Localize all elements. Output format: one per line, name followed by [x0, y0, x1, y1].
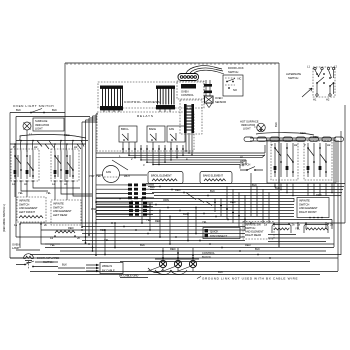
bus band 3: [16, 223, 345, 244]
svg-text:OVEN: OVEN: [12, 243, 20, 247]
relay pin stubs to bus: [122, 142, 184, 153]
svg-text:BLK: BLK: [252, 183, 257, 187]
svg-text:DISCONNECT: DISCONNECT: [210, 234, 228, 238]
trunk hooks to harness: [82, 114, 98, 122]
oven light switch wire BLK: [10, 108, 65, 113]
svg-text:INFINITE: INFINITE: [53, 202, 64, 206]
svg-text:INDICATOR: INDICATOR: [241, 123, 255, 127]
svg-text:INFINITE: INFINITE: [19, 199, 30, 203]
bus vertical jogs: [104, 198, 197, 256]
svg-text:INFINITE SW: INFINITE SW: [245, 223, 261, 227]
svg-text:RIGHT REAR: RIGHT REAR: [245, 233, 261, 237]
svg-text:RED: RED: [175, 188, 181, 192]
svg-text:BLK: BLK: [275, 186, 280, 190]
oven control lower connector: [180, 100, 202, 134]
left fan-out wires to infinite switches: [10, 130, 88, 152]
hi limit switch: [240, 155, 263, 171]
wire to BX box: [35, 262, 85, 268]
svg-text:H2: H2: [326, 98, 330, 102]
console-to-bus drops: [271, 183, 332, 196]
element coil right front: [295, 223, 333, 234]
right console outer box: [267, 140, 336, 183]
disconnect cluster lower: [96, 202, 153, 216]
svg-text:INFINITE: INFINITE: [299, 199, 310, 203]
svg-text:WIRE IN: WIRE IN: [102, 264, 112, 268]
arrows into bx box: [86, 264, 100, 272]
element coil left rear: [50, 231, 80, 241]
connector J1 (left hatched block): [100, 86, 123, 113]
svg-text:YEL: YEL: [18, 191, 23, 195]
hot surface light label: [240, 120, 259, 131]
junction dots: [81, 186, 271, 259]
wires lamp circuit: [10, 224, 60, 258]
main left wire runs: [10, 113, 90, 259]
alternate switch arrow: [302, 88, 312, 97]
svg-text:RED: RED: [230, 200, 236, 204]
svg-text:CONTROL: CONTROL: [181, 93, 194, 97]
svg-text:AND ELEMENT: AND ELEMENT: [19, 206, 38, 210]
oven control connector tails: [186, 133, 192, 155]
connector J2 (right hatched block): [156, 86, 175, 113]
svg-text:HOT SURFACE: HOT SURFACE: [240, 120, 259, 124]
surface indicator light: [23, 118, 64, 131]
terminal row under left switches: [12, 180, 74, 186]
wire in bx cable box: [100, 263, 123, 274]
drops from band2 to right coils: [294, 198, 332, 229]
stair jogs: [112, 160, 212, 206]
svg-text:BROIL ELEMENT: BROIL ELEMENT: [151, 174, 172, 178]
svg-text:BLK: BLK: [140, 243, 145, 247]
svg-text:BLK: BLK: [274, 122, 278, 127]
svg-text:RELAYS: RELAYS: [137, 114, 154, 118]
svg-text:H2: H2: [74, 145, 78, 149]
svg-text:SWITCH: SWITCH: [228, 70, 238, 74]
svg-text:ORN: ORN: [163, 198, 169, 202]
terminal block post L1: [159, 257, 166, 268]
oven sensor wires and inline connectors: [204, 80, 212, 96]
svg-text:SURFACE: SURFACE: [35, 119, 48, 123]
svg-text:BX CABLE: BX CABLE: [102, 269, 115, 273]
note pointer: [197, 277, 201, 279]
svg-text:GROUND LINK NOT USED WITH BX C: GROUND LINK NOT USED WITH BX CABLE WIRE: [202, 277, 298, 281]
switch contact blocks left: [14, 170, 69, 174]
svg-text:H2: H2: [327, 143, 331, 147]
svg-text:SWITCH: SWITCH: [53, 205, 63, 209]
svg-text:P: P: [304, 143, 306, 147]
svg-text:FAN: FAN: [106, 170, 111, 174]
control harness dashed box: [98, 82, 204, 108]
svg-text:BRO-L: BRO-L: [121, 127, 130, 131]
svg-text:ALTERNATE: ALTERNATE: [286, 72, 301, 76]
svg-text:OVEN LIGHT SWITCH: OVEN LIGHT SWITCH: [13, 104, 54, 108]
relays dashed box: [97, 112, 194, 151]
oven control dashed box: [177, 81, 204, 99]
fanout end hooks: [240, 145, 265, 169]
infinite switch left front (dashed box with contacts): [11, 149, 39, 181]
svg-text:LIGHT: LIGHT: [35, 127, 43, 131]
svg-text:YEL: YEL: [146, 218, 151, 222]
svg-text:YEL: YEL: [202, 220, 207, 224]
svg-text:RED: RED: [170, 247, 176, 251]
infinite switch right front (dashed contacts box): [304, 141, 332, 180]
console edge stitching: [67, 63, 275, 65]
svg-text:FAN: FAN: [169, 127, 174, 131]
svg-text:RED: RED: [245, 243, 251, 247]
svg-text:CONTROL HARNESS: CONTROL HARNESS: [124, 100, 160, 104]
svg-text:P: P: [271, 143, 273, 147]
svg-text:BLOCK: BLOCK: [202, 255, 211, 259]
infinite switch left rear (dashed box with contacts): [51, 149, 79, 181]
svg-text:BLK: BLK: [218, 270, 223, 274]
svg-text:P: P: [13, 145, 15, 149]
svg-text:(RED WIRE SWITCH L): (RED WIRE SWITCH L): [2, 204, 6, 232]
disconnect cluster upper: [96, 184, 154, 200]
svg-text:P: P: [53, 145, 55, 149]
bus band 2: [96, 199, 294, 220]
svg-text:RED: RED: [316, 193, 322, 197]
svg-text:AND ELEMENT: AND ELEMENT: [53, 209, 72, 213]
svg-text:BLK: BLK: [150, 185, 155, 189]
svg-text:LEFT REAR: LEFT REAR: [53, 213, 67, 217]
bottom bus lines: [30, 272, 338, 278]
fan wires: [96, 174, 147, 176]
hot surface indicator light: [257, 123, 266, 132]
svg-text:NO: NO: [233, 88, 237, 92]
svg-text:BLK: BLK: [62, 263, 67, 267]
svg-text:YEL: YEL: [295, 227, 300, 231]
RED feeds to right console: [250, 131, 336, 141]
svg-text:SWITCH: SWITCH: [288, 76, 298, 80]
svg-text:SWITCH: SWITCH: [299, 202, 309, 206]
svg-text:H2: H2: [294, 143, 298, 147]
console outer box: [65, 63, 279, 247]
element coil right rear: [264, 223, 295, 234]
svg-text:OVEN: OVEN: [181, 90, 189, 94]
svg-text:H2: H2: [34, 145, 38, 149]
infinite switch and element right front label: [297, 198, 329, 218]
svg-text:YEL: YEL: [50, 243, 55, 247]
oven sensor: [205, 96, 214, 108]
svg-text:CONTROL: CONTROL: [202, 251, 215, 255]
svg-text:AND ELEMENT: AND ELEMENT: [299, 206, 318, 210]
svg-text:SWITCH: SWITCH: [245, 226, 255, 230]
svg-text:YEL: YEL: [145, 205, 150, 209]
bake element: [200, 172, 232, 184]
svg-text:H1: H1: [313, 98, 317, 102]
svg-text:PNP: PNP: [89, 174, 95, 178]
svg-text:BLK: BLK: [52, 108, 57, 112]
svg-text:RIGHT FRONT: RIGHT FRONT: [299, 210, 317, 214]
fan-in curves to left switch groups: [15, 141, 84, 153]
svg-text:AND ELEMENT: AND ELEMENT: [245, 230, 264, 234]
door lock switch box: [223, 75, 243, 96]
misc wire labels: [50, 183, 260, 251]
infinite switch and element left front label box: [17, 197, 46, 222]
alternate switch box: [307, 65, 337, 102]
broil element: [148, 172, 183, 184]
right vertical trunk: [334, 105, 345, 271]
relay pin step-downs: [123, 153, 183, 165]
ground strap curves: [148, 268, 187, 275]
terminal block post N: [174, 257, 181, 268]
svg-text:SWITCH: SWITCH: [19, 202, 29, 206]
left vertical trunk: [82, 114, 96, 255]
terminal block post L2: [189, 257, 196, 268]
wire bundle from oven control to door lock: [186, 66, 224, 74]
svg-text:LEFT FRONT: LEFT FRONT: [19, 210, 35, 214]
relay K3 FAN: [167, 126, 185, 142]
oven control connector block: [181, 84, 196, 89]
door actuated switch: [16, 261, 58, 269]
oven lamp: [24, 254, 34, 263]
svg-text:YEL: YEL: [96, 174, 101, 178]
right front box bottom terminals: [309, 217, 311, 219]
junction dots on buses: [81, 201, 252, 256]
svg-text:RED: RED: [68, 226, 74, 230]
relay K2 BAKE: [147, 126, 165, 142]
svg-text:NC: NC: [238, 77, 242, 81]
mid vertical drops: [215, 173, 269, 231]
wire tag bubbles above right console: [244, 137, 344, 141]
infinite switch and element left rear label box: [51, 200, 81, 225]
quick disconnect box: [203, 228, 240, 239]
element coil left front: [19, 216, 43, 219]
infinite switch and element right rear label: [243, 222, 274, 240]
svg-text:WHT: WHT: [124, 174, 130, 178]
wires from switches to elements: [15, 181, 92, 200]
svg-text:BLK: BLK: [16, 108, 21, 112]
oven control plug P1 (oval with pins): [178, 74, 199, 81]
svg-text:LAMP: LAMP: [12, 246, 19, 250]
fan motor: [96, 166, 130, 183]
svg-text:BX CABLE GRD: BX CABLE GRD: [119, 274, 138, 278]
bus band 1: [146, 184, 345, 196]
bus band 4: [10, 248, 341, 262]
svg-text:QUICK: QUICK: [210, 230, 219, 234]
svg-text:DOOR LOCK: DOOR LOCK: [228, 66, 244, 70]
terminal tiny labels: [13, 143, 331, 167]
svg-text:SENSOR: SENSOR: [215, 100, 226, 104]
svg-text:BAKE ELEMENT: BAKE ELEMENT: [203, 174, 223, 178]
svg-text:SWITCH: SWITCH: [240, 163, 250, 167]
relay output fan to buses: [96, 153, 265, 165]
infinite switch right rear (dashed contacts box): [271, 141, 298, 180]
relay K1 BROIL: [119, 126, 137, 142]
svg-text:INDICATOR: INDICATOR: [35, 123, 49, 127]
svg-text:OVEN: OVEN: [215, 96, 223, 100]
console right edge drop: [278, 140, 280, 247]
switch contact blocks right: [274, 166, 322, 170]
svg-text:BLK: BLK: [210, 189, 215, 193]
svg-text:BLK: BLK: [255, 247, 260, 251]
svg-text:LIGHT: LIGHT: [243, 127, 251, 131]
svg-text:BAKE: BAKE: [149, 127, 156, 131]
terminal feeds from buses: [147, 248, 199, 272]
svg-text:YEL: YEL: [46, 191, 51, 195]
